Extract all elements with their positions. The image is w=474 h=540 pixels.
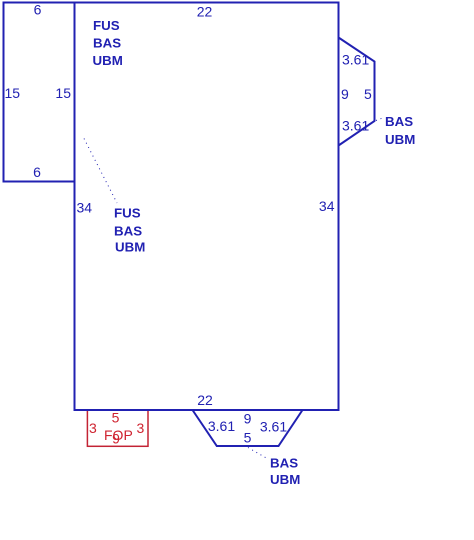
red rectangle FOP outline	[87, 410, 148, 446]
dotted leader line to second FUS BAS UBM label	[84, 139, 117, 204]
svg-text:UBM: UBM	[385, 132, 415, 147]
svg-text:9: 9	[112, 431, 120, 447]
svg-text:6: 6	[33, 164, 41, 180]
svg-text:5: 5	[112, 410, 120, 426]
svg-text:UBM: UBM	[115, 240, 145, 255]
svg-text:BAS: BAS	[385, 114, 413, 129]
svg-text:15: 15	[55, 85, 71, 101]
svg-text:3: 3	[89, 420, 97, 436]
svg-text:BAS: BAS	[93, 36, 121, 51]
svg-text:UBM: UBM	[270, 472, 300, 487]
svg-text:3.61: 3.61	[208, 418, 235, 434]
trapezoid pad bottom	[193, 410, 303, 446]
dotted leader line to bottom BAS UBM label	[248, 448, 268, 460]
svg-text:9: 9	[341, 86, 349, 102]
svg-text:9: 9	[244, 411, 252, 427]
small rectangle top-left (6 x 15)	[4, 3, 75, 182]
svg-text:BAS: BAS	[114, 224, 142, 239]
svg-text:6: 6	[34, 2, 42, 18]
svg-text:34: 34	[77, 200, 93, 216]
svg-text:3.61: 3.61	[342, 52, 369, 68]
svg-text:FUS: FUS	[114, 206, 141, 221]
svg-text:22: 22	[197, 4, 213, 20]
svg-text:BAS: BAS	[270, 456, 298, 471]
svg-text:5: 5	[244, 430, 252, 446]
svg-text:3: 3	[137, 420, 145, 436]
svg-text:3.61: 3.61	[260, 419, 287, 435]
svg-text:FUS: FUS	[93, 18, 120, 33]
svg-text:3.61: 3.61	[342, 118, 369, 134]
svg-text:UBM: UBM	[93, 53, 123, 68]
svg-text:5: 5	[364, 86, 372, 102]
hexagon pad right side	[339, 38, 375, 146]
svg-text:34: 34	[319, 198, 335, 214]
main rectangle (22 x 34)	[75, 3, 339, 411]
dotted leader line to right BAS UBM label	[376, 118, 384, 121]
svg-text:22: 22	[197, 392, 213, 408]
svg-text:15: 15	[5, 85, 21, 101]
